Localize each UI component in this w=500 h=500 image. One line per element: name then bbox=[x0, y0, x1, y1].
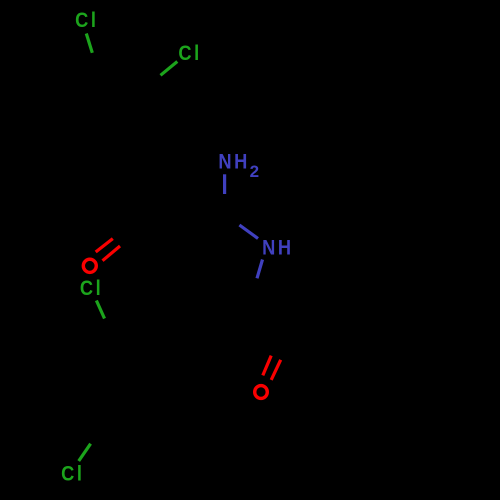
Cl label upper (atom Cl2) bbox=[178, 42, 201, 66]
bond stub C-Cl1 bbox=[86, 34, 92, 53]
bond stub C-Cl4 bbox=[79, 444, 91, 461]
bond stub N(pyrrole)-C5 bbox=[257, 260, 263, 279]
Cl label middle (atom Cl3) bbox=[80, 277, 103, 301]
Cl label top-left (atom Cl1) bbox=[75, 8, 98, 32]
C=O double bond stub right bbox=[271, 360, 281, 380]
bond stub C-Cl3 bbox=[96, 301, 104, 319]
svg-text:Cl: Cl bbox=[80, 277, 103, 301]
NH2 amine label bbox=[218, 150, 249, 174]
Cl label bottom (atom Cl4) bbox=[61, 462, 84, 486]
bond stub C2-NH2 bbox=[223, 174, 226, 194]
bond stub C-Cl2 bbox=[161, 62, 178, 76]
svg-text:NH: NH bbox=[262, 236, 293, 260]
O label ketone 1 bbox=[83, 259, 96, 272]
svg-text:NH: NH bbox=[218, 150, 249, 174]
O label ketone 2 bbox=[255, 386, 268, 399]
svg-text:Cl: Cl bbox=[178, 42, 201, 66]
svg-text:Cl: Cl bbox=[61, 462, 84, 486]
C=O double bond stub upper bbox=[96, 239, 113, 252]
svg-text:2: 2 bbox=[250, 162, 262, 181]
NH2 subscript 2 bbox=[250, 162, 262, 181]
C=O double bond stub left bbox=[263, 356, 271, 376]
svg-text:Cl: Cl bbox=[75, 8, 98, 32]
C=O double bond stub lower bbox=[103, 246, 121, 261]
NH pyrrole label bbox=[262, 236, 293, 260]
bond stub C2-N(pyrrole) bbox=[239, 225, 258, 239]
